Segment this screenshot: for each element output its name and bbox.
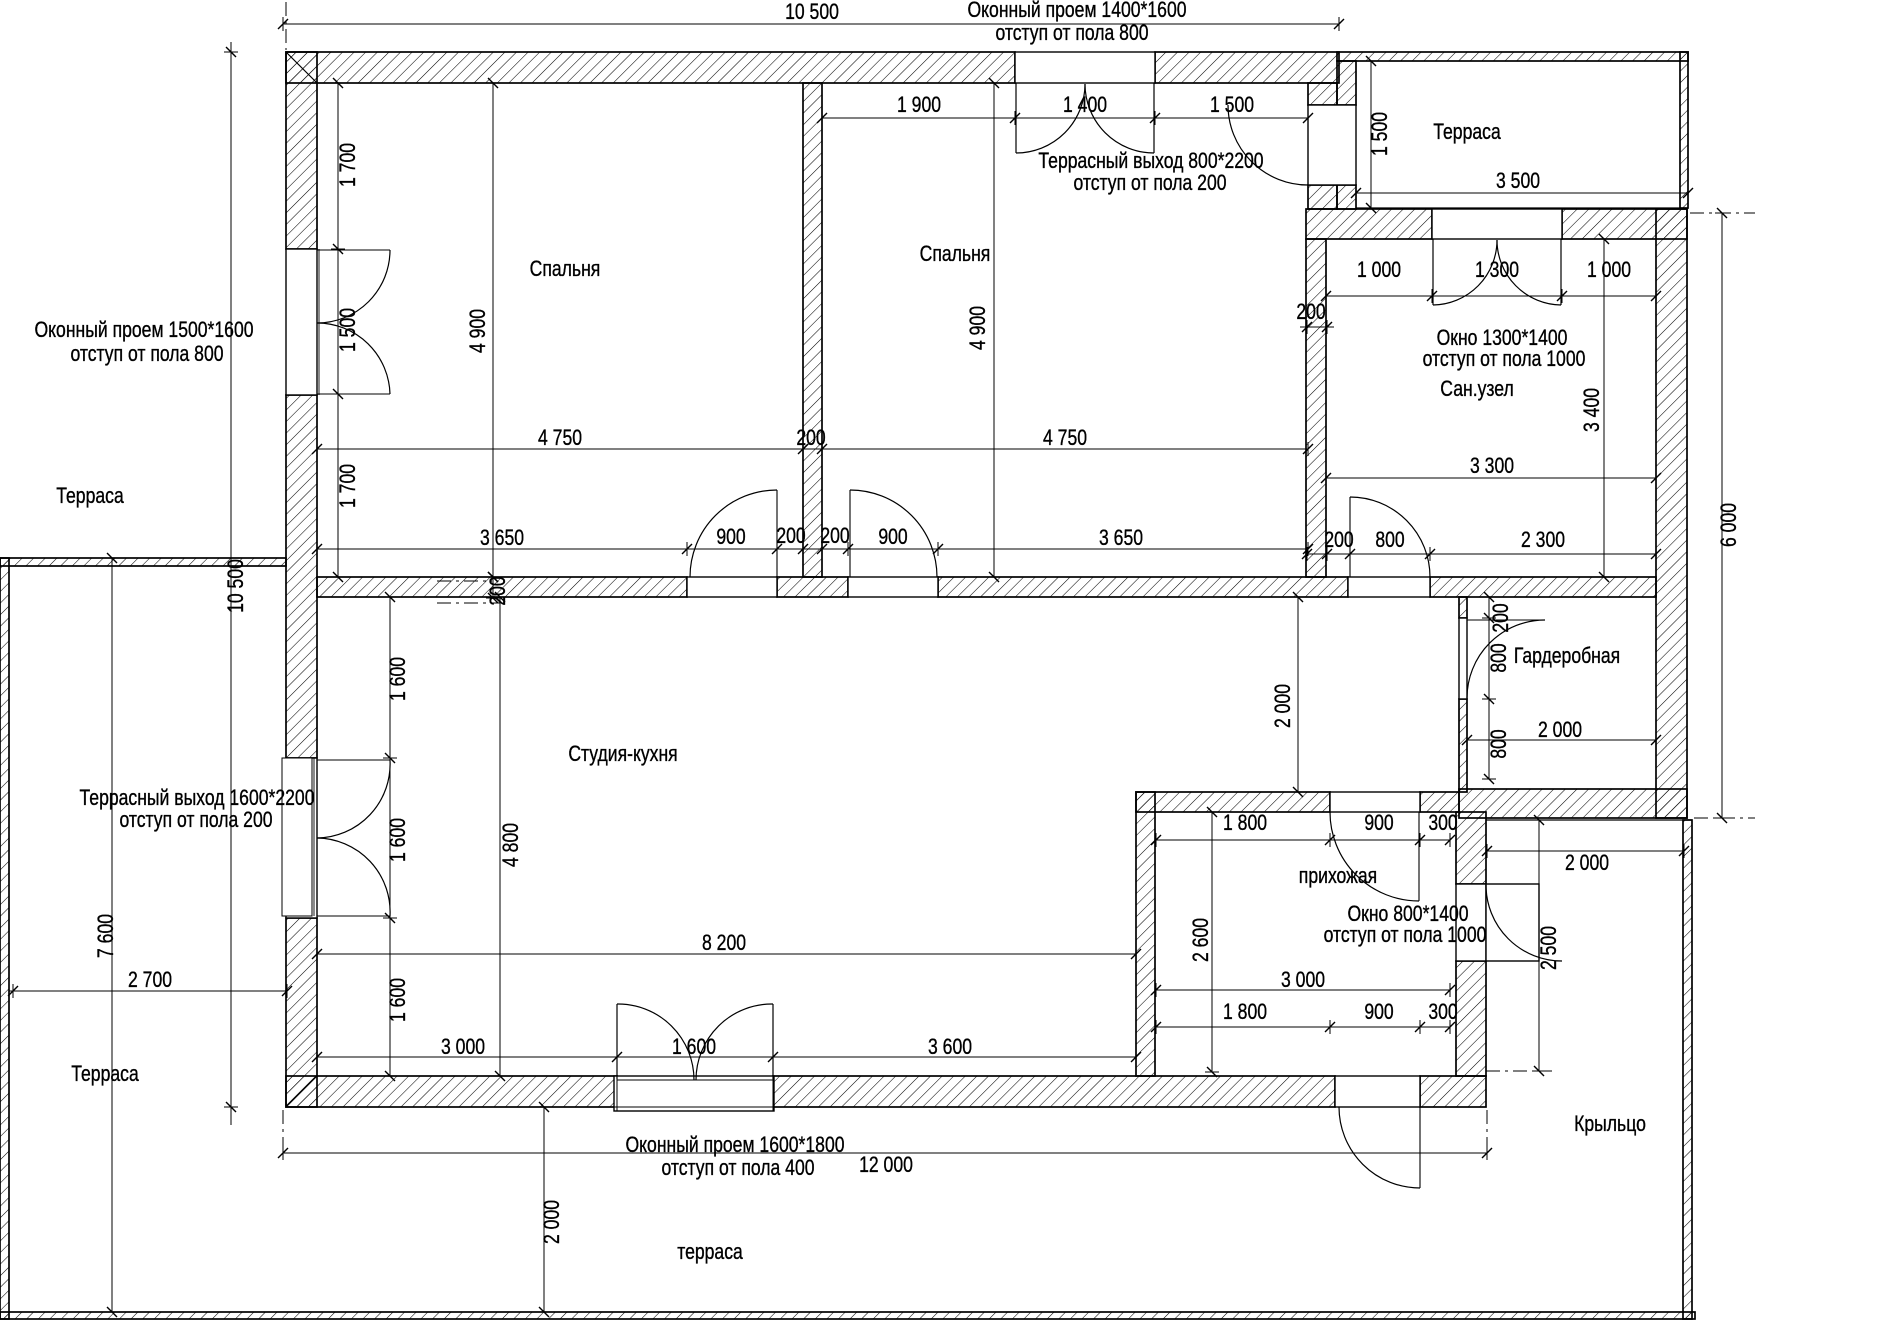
dash extension 6000 dim bottom: [1694, 817, 1755, 819]
svg-text:4 800: 4 800: [499, 823, 523, 867]
dash extension bottom-right to 12000 dim: [1486, 1110, 1488, 1152]
entrance door opening 900 in bottom wall: [1335, 1076, 1420, 1107]
svg-text:1 500: 1 500: [336, 308, 360, 352]
terrace exit door opening 1600x2200 in left wall: [286, 758, 317, 918]
door D6 hallway leaf: [1418, 812, 1420, 901]
svg-text:2 000: 2 000: [1538, 718, 1582, 742]
window W5 bottom right leaf: [772, 1004, 774, 1079]
door D2 bedroom2 leaf: [849, 490, 851, 577]
svg-text:Студия-кухня: Студия-кухня: [568, 742, 677, 766]
svg-text:Оконный проем 1600*1800: Оконный проем 1600*1800: [625, 1133, 844, 1157]
svg-text:200: 200: [486, 576, 510, 605]
svg-text:3 000: 3 000: [441, 1035, 485, 1059]
dimension 2 700 left terrace: [8, 984, 292, 998]
dimension 7 600 left terrace: [105, 553, 119, 1317]
window W5 left casement arc: [617, 1004, 694, 1080]
right exterior wall bathroom-wardrobe: [1656, 209, 1687, 818]
dimension chain left wall 1700-1500-1700: [331, 78, 345, 582]
bathroom top wall right segment: [1562, 209, 1687, 239]
svg-text:1 400: 1 400: [1063, 93, 1107, 117]
svg-text:Террасный выход 1600*2200: Террасный выход 1600*2200: [80, 786, 315, 810]
dimension 10 500 top: [278, 17, 1344, 31]
svg-text:900: 900: [878, 525, 907, 549]
svg-text:12 000: 12 000: [859, 1153, 913, 1177]
svg-text:800: 800: [1487, 729, 1511, 758]
exterior top wall right segment: [1155, 52, 1339, 83]
svg-text:2 300: 2 300: [1521, 528, 1565, 552]
svg-text:10 500: 10 500: [785, 0, 839, 24]
svg-text:1 800: 1 800: [1223, 811, 1267, 835]
bathroom door opening 800: [1348, 577, 1430, 597]
door D7 entrance leaf: [1419, 1107, 1421, 1188]
svg-text:Терраса: Терраса: [71, 1062, 139, 1086]
svg-text:2 700: 2 700: [128, 968, 172, 992]
svg-text:Сан.узел: Сан.узел: [1440, 377, 1513, 401]
exterior bottom wall middle segment: [773, 1076, 1335, 1107]
svg-text:200: 200: [1296, 300, 1325, 324]
svg-text:3 500: 3 500: [1496, 169, 1540, 193]
svg-text:терраса: терраса: [677, 1240, 743, 1264]
svg-text:800: 800: [1487, 643, 1511, 672]
svg-text:2 500: 2 500: [1537, 926, 1561, 970]
door D5 wardrobe swing arc: [1467, 620, 1545, 698]
exterior left wall lower segment: [286, 918, 317, 1107]
svg-text:7 600: 7 600: [94, 914, 118, 958]
corner chamfer line top-left: [286, 52, 317, 83]
door D5 wardrobe leaf: [1467, 619, 1545, 621]
dash extension bottom-left to 12000 dim: [282, 1110, 284, 1152]
svg-text:2 000: 2 000: [540, 1200, 564, 1244]
terrace exit door opening 800x2200 bedroom2: [1308, 105, 1356, 185]
dimension 4 900 bedroom2: [987, 78, 1001, 582]
dimension 2 500 porch: [1532, 815, 1546, 1076]
dimension 2 000 studio right: [1291, 592, 1305, 797]
door D6 hallway swing arc: [1330, 812, 1419, 901]
porch right wall: [1683, 820, 1692, 1319]
svg-text:200: 200: [1324, 528, 1353, 552]
svg-text:Спальня: Спальня: [530, 257, 601, 281]
svg-text:800: 800: [1375, 528, 1404, 552]
svg-text:Терраса: Терраса: [56, 484, 124, 508]
dimension chain 4750-200-4750: [312, 442, 1313, 456]
svg-text:200: 200: [1489, 603, 1513, 632]
svg-text:300: 300: [1428, 1000, 1457, 1024]
door D8 left terrace bottom leaf: [317, 915, 390, 917]
window sill box hallway window: [1486, 884, 1539, 961]
svg-text:1 700: 1 700: [336, 464, 360, 508]
svg-text:отступ от пола 400: отступ от пола 400: [661, 1156, 814, 1180]
svg-text:Терраса: Терраса: [1433, 120, 1501, 144]
dimension chain bathroom 200-800-2300: [1302, 547, 1661, 561]
dash extension 6000 dim top: [1690, 212, 1755, 214]
svg-text:Оконный проем 1400*1600: Оконный проем 1400*1600: [967, 0, 1186, 23]
exterior top wall left segment: [286, 52, 1015, 83]
left terrace left wall: [0, 558, 9, 1319]
exterior left wall middle segment: [286, 395, 317, 758]
door D4 bathroom leaf: [1349, 497, 1351, 577]
svg-text:2 000: 2 000: [1271, 684, 1295, 728]
exterior bottom wall right segment: [1420, 1076, 1486, 1107]
dimension 2 000 bottom terrace: [537, 1102, 551, 1317]
interior dividing wall segment d: [1430, 577, 1656, 597]
dimension 200 bathroom left wall: [1300, 320, 1334, 334]
svg-text:Оконный проем 1500*1600: Оконный проем 1500*1600: [34, 318, 253, 342]
svg-text:2 600: 2 600: [1189, 918, 1213, 962]
dimension 3 000 hallway: [1151, 983, 1455, 997]
window W2 right leaf: [1560, 239, 1562, 305]
dimension chain 3650-900-200: [312, 542, 1313, 556]
dimension 3 500 terrace width: [1351, 186, 1693, 200]
dimension 200 dividing wall: [486, 572, 500, 603]
svg-text:1 500: 1 500: [1210, 93, 1254, 117]
svg-text:1 600: 1 600: [386, 818, 410, 862]
svg-text:3 600: 3 600: [928, 1035, 972, 1059]
bathroom left wall: [1306, 239, 1326, 577]
wardrobe left wall upper segment: [1459, 597, 1467, 618]
svg-text:3 000: 3 000: [1281, 968, 1325, 992]
door D8 top swing arc: [317, 760, 390, 838]
hallway left wall: [1136, 792, 1155, 1076]
door D8 left terrace top leaf: [317, 759, 390, 761]
svg-text:отступ от пола 800: отступ от пола 800: [70, 342, 223, 366]
dash extension 2500 dim bottom: [1486, 1070, 1552, 1072]
svg-text:3 400: 3 400: [1580, 388, 1604, 432]
window sill lower line bottom window: [614, 1106, 774, 1108]
dimension 10 500 left side: [224, 42, 238, 1125]
svg-text:4 750: 4 750: [538, 426, 582, 450]
svg-text:1 600: 1 600: [386, 657, 410, 701]
door D3 terrace exit bedroom2 swing arc: [1228, 105, 1308, 185]
top-right terrace right wall: [1680, 52, 1688, 208]
window opening 1400x1600 in top wall: [1015, 52, 1155, 83]
window frame line left window: [318, 249, 320, 395]
porch top edge: [1486, 819, 1692, 821]
window W1 left leaf: [1015, 83, 1017, 153]
dimension chain bottom 3000-1600-3600: [312, 1050, 1141, 1064]
dimension 8 200 studio width: [312, 947, 1141, 961]
window inner frame line bottom window: [617, 1079, 773, 1081]
dimension 1 500 terrace height: [1364, 56, 1378, 213]
svg-text:1 700: 1 700: [336, 143, 360, 187]
top-right terrace floor bottom edge: [1356, 207, 1680, 209]
bathroom top wall left segment: [1306, 209, 1432, 239]
door D1 bedroom1 leaf: [776, 490, 778, 577]
exterior left wall upper segment: [286, 52, 317, 249]
door D4 bathroom swing arc: [1350, 497, 1430, 577]
svg-text:900: 900: [1364, 1000, 1393, 1024]
bottom terrace bottom wall: [0, 1312, 1695, 1319]
dash extension 2500 dim top: [1489, 819, 1552, 821]
bedroom2 right exterior wall below door: [1308, 185, 1337, 209]
dimension chain hallway bottom 1800-900-300: [1151, 1020, 1455, 1034]
dash extension top-left corner: [285, 2, 287, 50]
svg-text:отступ от пола 800: отступ от пола 800: [995, 21, 1148, 45]
hallway top wall right segment: [1420, 792, 1459, 812]
svg-text:1 500: 1 500: [1368, 112, 1392, 156]
svg-text:4 900: 4 900: [966, 306, 990, 350]
left terrace top wall: [0, 558, 286, 566]
window W4 left-wall bottom leaf: [317, 393, 390, 395]
hallway right wall below window: [1456, 961, 1486, 1076]
window W5 bottom left leaf: [616, 1004, 618, 1079]
window W4 bottom casement arc: [317, 323, 390, 394]
dimension chain bedroom2 1900-1400-1500: [817, 111, 1313, 125]
svg-text:прихожая: прихожая: [1299, 864, 1377, 888]
dimension 6 000 right side: [1715, 208, 1729, 823]
window W1 left casement arc: [1016, 84, 1085, 153]
bedroom2 door opening 900: [848, 577, 938, 597]
dimension 3 300 bathroom width: [1321, 471, 1661, 485]
window W4 left-wall top leaf: [317, 249, 390, 251]
dash extension 200 wall dim upper: [437, 580, 492, 582]
bedroom1 door opening 900: [687, 577, 777, 597]
wardrobe door opening 800: [1459, 618, 1467, 699]
svg-text:900: 900: [1364, 811, 1393, 835]
interior dividing wall segment a: [317, 577, 687, 597]
svg-text:6 000: 6 000: [1717, 503, 1741, 547]
terrace left wall below door: [1337, 185, 1356, 209]
wardrobe bottom wall: [1459, 789, 1687, 818]
interior dividing wall segment b: [777, 577, 848, 597]
svg-text:1 900: 1 900: [897, 93, 941, 117]
hallway opening 900 to studio: [1330, 792, 1420, 812]
window opening 800x1400 in hallway right wall: [1456, 884, 1486, 961]
dimension chain bathroom 1000-1300-1000: [1321, 289, 1661, 303]
svg-text:4 900: 4 900: [466, 309, 490, 353]
dimension 12 000 bottom: [278, 1146, 1492, 1160]
window W2 left leaf: [1432, 239, 1434, 305]
svg-text:900: 900: [716, 525, 745, 549]
svg-text:200: 200: [776, 524, 805, 548]
svg-text:1 600: 1 600: [672, 1035, 716, 1059]
window opening 1300x1400 in bathroom top wall: [1432, 209, 1562, 239]
window opening 1500x1600 in left wall: [286, 249, 317, 395]
svg-text:2 000: 2 000: [1565, 851, 1609, 875]
door D2 bedroom2 swing arc: [850, 490, 937, 577]
window W4 top casement arc: [317, 250, 390, 323]
dimension chain studio left 1600x3: [383, 592, 397, 1081]
corner chamfer line bottom-left: [286, 1076, 317, 1107]
door panel terrace exit left: [282, 758, 312, 916]
interior wall between bedrooms: [803, 83, 822, 577]
svg-text:отступ от пола 200: отступ от пола 200: [119, 808, 272, 832]
svg-text:200: 200: [820, 524, 849, 548]
top-right terrace top wall: [1337, 52, 1688, 61]
window W2 left casement arc: [1433, 240, 1497, 305]
svg-text:1 300: 1 300: [1475, 258, 1519, 282]
svg-text:1 000: 1 000: [1587, 258, 1631, 282]
svg-text:300: 300: [1428, 811, 1457, 835]
window W1 right casement arc: [1085, 84, 1154, 153]
svg-text:1 000: 1 000: [1357, 258, 1401, 282]
svg-text:8 200: 8 200: [702, 931, 746, 955]
hallway top wall left segment: [1136, 792, 1330, 812]
svg-text:3 300: 3 300: [1470, 454, 1514, 478]
svg-text:Террасный выход 800*2200: Террасный выход 800*2200: [1038, 149, 1263, 173]
svg-text:3 650: 3 650: [1099, 526, 1143, 550]
terrace left wall above door: [1337, 61, 1356, 105]
svg-text:1 600: 1 600: [386, 978, 410, 1022]
svg-text:3 650: 3 650: [480, 526, 524, 550]
door frame line left terrace door: [313, 758, 315, 916]
door D8 bottom swing arc: [317, 838, 390, 916]
svg-text:отступ от пола 1000: отступ от пола 1000: [1324, 923, 1487, 947]
door D1 bedroom1 swing arc: [690, 490, 777, 577]
dimension 3 400 bathroom height: [1597, 234, 1611, 582]
window W2 right casement arc: [1497, 240, 1561, 305]
dimension 4 900 bedroom1: [486, 78, 500, 582]
dimension chain wardrobe 200-800-800: [1482, 592, 1496, 784]
bedroom2 right exterior wall above door: [1308, 83, 1337, 105]
hallway right wall above window: [1456, 812, 1486, 884]
dimension chain hallway top 1800-900-300: [1151, 833, 1455, 847]
dimension 4 800 studio: [493, 592, 507, 1081]
window W3 hallway swing arc: [1486, 885, 1562, 961]
door D7 entrance swing arc: [1339, 1107, 1420, 1188]
svg-text:4 750: 4 750: [1043, 426, 1087, 450]
svg-text:200: 200: [796, 426, 825, 450]
interior dividing wall segment c: [938, 577, 1348, 597]
svg-text:отступ от пола 200: отступ от пола 200: [1073, 171, 1226, 195]
svg-text:Спальня: Спальня: [920, 242, 991, 266]
dimension 2 000 porch: [1482, 844, 1689, 858]
dimension 2 600 hallway: [1205, 807, 1219, 1077]
dash extension 200 wall dim lower: [437, 602, 500, 604]
dimension 2 000 wardrobe: [1462, 733, 1661, 747]
svg-text:10 500: 10 500: [224, 559, 248, 613]
exterior bottom wall left segment: [286, 1076, 617, 1107]
svg-text:1 800: 1 800: [1223, 1000, 1267, 1024]
window W1 right leaf: [1153, 83, 1155, 153]
window W5 right casement arc: [696, 1004, 773, 1080]
window opening 1600x1800 in bottom wall: [614, 1076, 774, 1111]
svg-text:Крыльцо: Крыльцо: [1574, 1112, 1646, 1136]
svg-text:Гардеробная: Гардеробная: [1514, 644, 1620, 668]
svg-text:отступ от пола 1000: отступ от пола 1000: [1423, 347, 1586, 371]
wardrobe left wall lower segment: [1459, 699, 1467, 792]
